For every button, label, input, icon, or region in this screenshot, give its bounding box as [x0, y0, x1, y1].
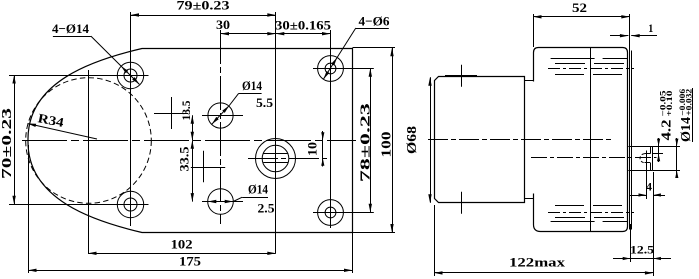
dim Ø14 shaft	[675, 89, 693, 178]
label 4-Ø6 with leader	[323, 14, 390, 80]
dim 78±0.23	[358, 68, 373, 212]
label Ø14 5.5 upper	[212, 78, 274, 124]
keyway end arc	[640, 154, 644, 163]
main centerline (side view)	[428, 139, 612, 141]
dim 100	[380, 48, 395, 233]
top hole hidden lines (side view)	[551, 59, 632, 75]
ext line 122max left	[434, 205, 436, 276]
centerline of top-right hole / ext for dim 78	[313, 68, 374, 70]
body-to-flange step bottom	[524, 198, 533, 200]
port center cross upper	[154, 97, 188, 129]
dim 70±0.23 extension lines	[9, 76, 112, 205]
pump flange plate outline (left view)	[28, 49, 353, 233]
dim 4	[629, 180, 665, 197]
dim 102	[88, 237, 276, 255]
keyway lines	[645, 154, 651, 163]
svg-text:78±0.23: 78±0.23	[358, 103, 373, 182]
dim 30	[216, 17, 276, 35]
svg-text:−0.05: −0.05	[658, 91, 667, 117]
body-to-flange step top	[524, 80, 533, 82]
svg-text:102: 102	[171, 237, 193, 252]
svg-text:100: 100	[380, 132, 395, 158]
label Ø14 2.5 lower	[208, 182, 275, 216]
svg-text:Ø14: Ø14	[678, 117, 693, 142]
dim 122max	[434, 254, 653, 274]
dim 13.5	[179, 101, 194, 141]
centerline through left Ø14 holes / ext for dim 79	[130, 12, 132, 226]
dim 79±0.23	[131, 0, 276, 17]
mounting hole axis mark bottom (side view)	[445, 192, 477, 214]
shaft	[628, 146, 652, 170]
ext line 122max right / 12.5 / shaft end	[653, 172, 655, 276]
hole 4-Ø14 top-left	[112, 62, 149, 88]
svg-text:Ø14: Ø14	[242, 78, 262, 93]
svg-text:12.5: 12.5	[630, 243, 654, 257]
shaft centerline	[531, 157, 657, 159]
shaft end chamfer lines	[650, 146, 652, 170]
label 4-Ø14 with leader	[52, 21, 139, 84]
svg-text:52: 52	[572, 0, 587, 15]
label R34 with leader	[28, 110, 98, 139]
svg-text:−0.006: −0.006	[678, 89, 687, 116]
svg-text:4−Ø6: 4−Ø6	[359, 14, 390, 29]
svg-text:5.5: 5.5	[256, 95, 274, 110]
svg-text:4.2: 4.2	[659, 119, 674, 140]
plate top edge extension	[353, 47, 396, 49]
svg-text:4−Ø14: 4−Ø14	[52, 21, 89, 36]
bore horizontal centerline	[248, 158, 328, 160]
dim 52	[533, 0, 630, 19]
top hole centerline (side view)	[548, 68, 634, 70]
bottom hole hidden lines (side view)	[551, 206, 632, 222]
svg-text:175: 175	[179, 254, 202, 269]
horizontal centerline left view	[22, 140, 356, 142]
hole 4-Ø6 top-right	[318, 56, 344, 82]
ext lines shaft top/bottom/keyway	[652, 147, 680, 171]
dim 30±0.165	[275, 18, 332, 36]
svg-text:13.5: 13.5	[179, 101, 193, 121]
flange block (side view)	[534, 48, 628, 232]
rear thin plate 1mm	[630, 51, 632, 230]
hole Ø14 lower-middle	[202, 189, 243, 215]
center bore inner circle Ø14	[262, 145, 289, 172]
flange-cover joint line	[590, 48, 592, 232]
vertical centerline of R34 circle / ext for dim 102	[88, 70, 90, 253]
svg-text:122max: 122max	[509, 254, 566, 269]
dim 1	[610, 21, 657, 37]
svg-text:4: 4	[646, 180, 652, 194]
dim 70±0.23	[0, 75, 16, 204]
svg-text:Ø68: Ø68	[405, 126, 420, 154]
bottom hole centerline (side view)	[548, 212, 634, 214]
svg-text:30±0.165: 30±0.165	[275, 18, 332, 33]
ext line right end of 175	[352, 233, 354, 274]
svg-text:Ø14: Ø14	[248, 182, 268, 197]
dim Ø68	[405, 77, 432, 203]
dim 33.5	[177, 140, 195, 201]
svg-text:79±0.23: 79±0.23	[177, 0, 231, 13]
dim 175	[28, 254, 353, 272]
centerline of center bore / ext for dims 79,30,102	[275, 12, 277, 253]
centerline through right Ø6 holes / ext for dim 30±0.165	[330, 30, 332, 228]
hole 4-Ø6 bottom-right	[318, 200, 344, 226]
ext line left end of 175	[28, 145, 30, 273]
svg-text:30: 30	[216, 17, 230, 32]
svg-text:10: 10	[305, 142, 320, 156]
svg-text:70±0.23: 70±0.23	[0, 108, 14, 179]
svg-text:2.5: 2.5	[258, 201, 276, 216]
dim 10	[305, 131, 325, 167]
ext lines dim 52	[534, 14, 630, 53]
centerline of bottom-right hole / ext for dim 78	[313, 212, 374, 214]
hole Ø14 upper-middle	[202, 103, 243, 128]
hole 4-Ø14 bottom-left	[112, 191, 149, 217]
ext line dim 4	[646, 151, 648, 200]
plate bottom edge extension	[353, 232, 396, 234]
ext line 12.5 left	[630, 224, 632, 262]
port center cross lower	[191, 151, 225, 183]
dim 12.5	[613, 243, 671, 261]
center bore outer circle	[256, 139, 296, 179]
svg-text:1: 1	[648, 21, 653, 35]
extra vertical line right edge	[692, 88, 694, 142]
dim 4.2 keyway	[657, 91, 674, 163]
svg-text:33.5: 33.5	[177, 146, 192, 172]
body cylinder Ø68 (side view)	[435, 77, 525, 203]
mounting hole axis mark top (side view)	[445, 65, 477, 87]
bore chord lines	[263, 154, 288, 163]
hidden body circle R34 (Ø68)	[26, 78, 152, 204]
centerline through middle Ø14 holes / ext for dim 30	[220, 30, 222, 224]
